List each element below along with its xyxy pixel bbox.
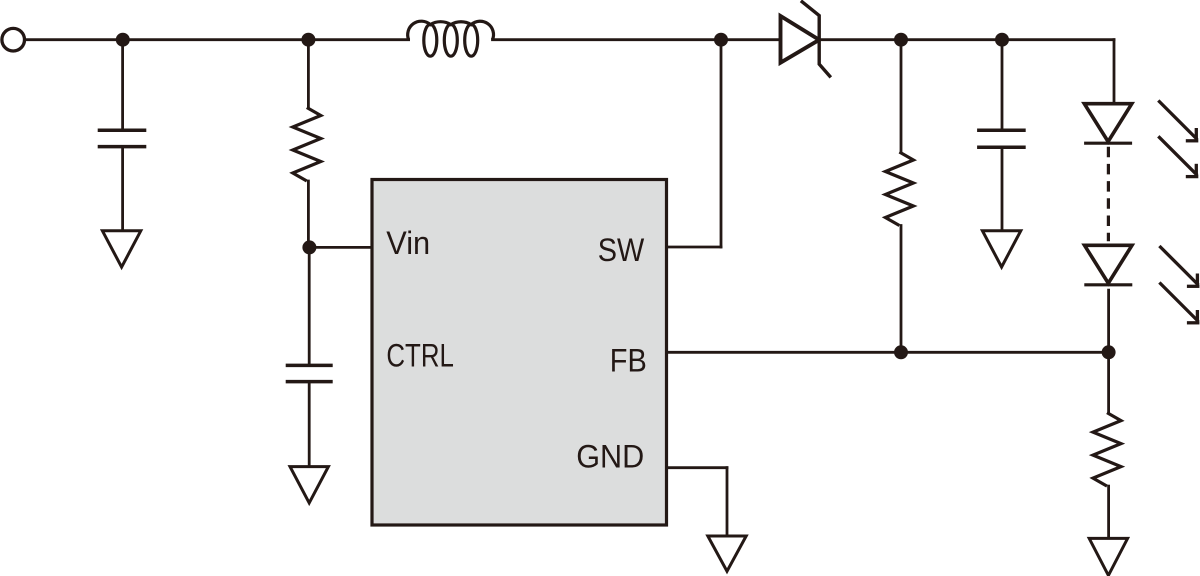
junction node: R3 / rail	[894, 33, 908, 47]
ground (C1)	[102, 231, 140, 267]
wire: SW pin	[667, 246, 722, 249]
wire: down to LED string	[1113, 40, 1116, 104]
wire: R1 to Vin node	[307, 181, 310, 247]
capacitor C2	[286, 364, 333, 368]
wire: R4 to ground	[1107, 486, 1110, 538]
LED D3 light arrow 2	[1159, 283, 1198, 322]
wire: R3 to FB line	[900, 226, 903, 353]
junction node: output cap	[995, 33, 1009, 47]
wire: GND pin	[667, 466, 728, 469]
wire: inductor to diode D1	[493, 38, 779, 41]
junction node: FB / LED string	[1102, 345, 1116, 359]
wire: rail to resistor R3	[900, 40, 903, 152]
wire: rail to capacitor C1	[121, 40, 124, 130]
junction node: R1 column	[301, 33, 315, 47]
diode D1 (anode triangle)	[781, 16, 820, 63]
wire: GND drop	[726, 468, 729, 537]
svg-text:Vin: Vin	[386, 225, 430, 261]
svg-text:FB: FB	[610, 343, 647, 379]
wire: FB pin to LED string	[667, 351, 1109, 354]
resistor R4	[1093, 413, 1121, 487]
LED D2 light arrow 1	[1158, 101, 1197, 140]
svg-text:GND: GND	[576, 438, 644, 474]
wire: Vin node to capacitor C2	[308, 247, 311, 365]
LED D2	[1084, 104, 1132, 142]
junction node: FB / R3	[894, 345, 908, 359]
wire: SW riser	[720, 40, 723, 247]
ground (GND pin)	[708, 536, 746, 571]
svg-text:SW: SW	[598, 232, 645, 268]
capacitor C1	[98, 128, 147, 132]
diode D1 cathode bar	[801, 1, 831, 78]
wire: FB node to resistor R4	[1107, 352, 1110, 412]
LED D2 light arrow 2	[1158, 136, 1197, 175]
wire: rail to capacitor C3	[1001, 40, 1004, 131]
resistor R3	[885, 152, 913, 226]
wire: C3 to ground	[1001, 147, 1004, 231]
junction node: input cap	[116, 33, 130, 47]
wire: C2 to ground	[308, 382, 311, 467]
LED D3	[1085, 245, 1133, 283]
ground (C2)	[290, 467, 328, 503]
junction node: SW / rail	[714, 33, 728, 47]
wire: Vin pin	[309, 246, 372, 249]
resistor R1	[293, 108, 321, 182]
wire: LED string to FB node	[1107, 290, 1110, 352]
dashed wire: LED string continuation	[1107, 147, 1110, 242]
input terminal	[2, 28, 25, 51]
ground (C3)	[982, 231, 1020, 267]
wire: C1 to ground	[121, 147, 124, 231]
capacitor C3	[977, 129, 1026, 133]
LED D3 light arrow 1	[1159, 246, 1198, 285]
inductor L1	[408, 21, 494, 56]
wire: diode to output corner	[819, 38, 1114, 41]
wire top rail: input terminal to inductor	[24, 38, 408, 41]
junction node: Vin	[302, 240, 316, 254]
IC U1 body	[372, 180, 667, 526]
svg-text:CTRL: CTRL	[386, 338, 454, 374]
wire: rail to resistor R1	[307, 40, 310, 108]
ground (R4)	[1089, 538, 1127, 575]
